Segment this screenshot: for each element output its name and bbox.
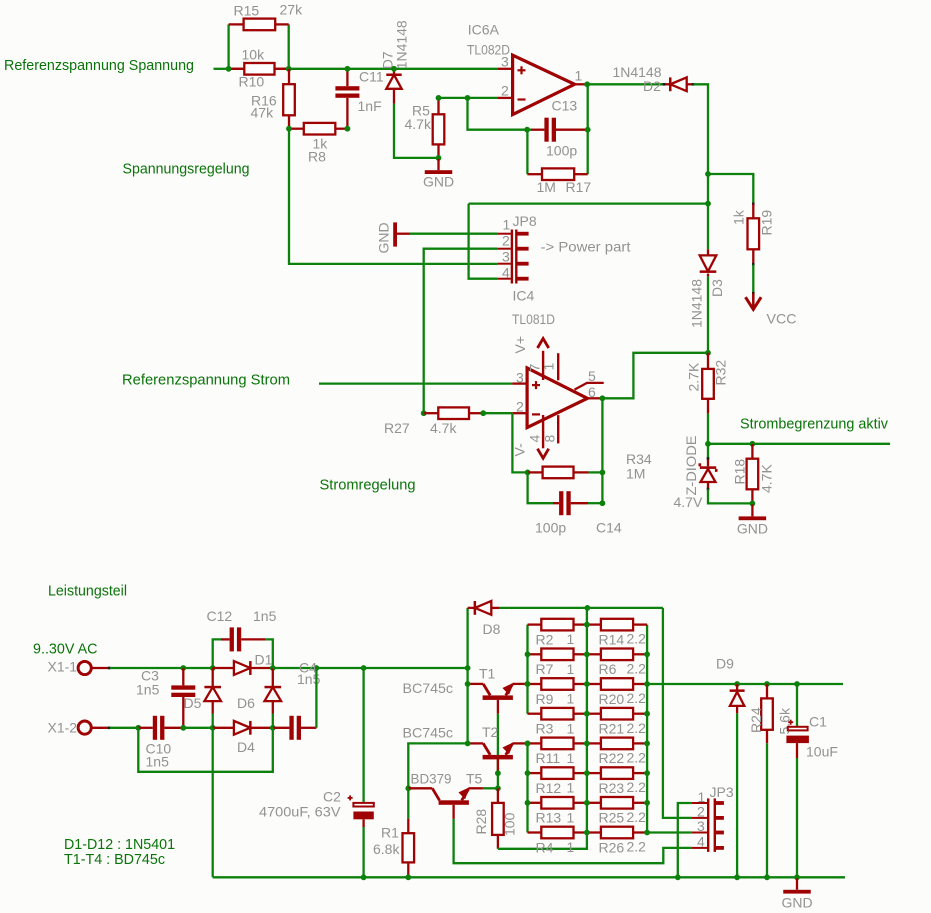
svg-text:Leistungsteil: Leistungsteil <box>48 583 127 600</box>
svg-text:R26: R26 <box>599 839 625 855</box>
junction C13 right <box>585 127 591 133</box>
svg-text:D8: D8 <box>483 621 501 637</box>
svg-text:C12: C12 <box>207 608 233 624</box>
svg-text:TL081D: TL081D <box>512 311 555 327</box>
wire +col to T5 collector <box>408 743 467 788</box>
junction T1 collector <box>465 681 471 687</box>
svg-text:8: 8 <box>542 435 558 443</box>
diode D5 <box>204 668 221 714</box>
svg-text:1: 1 <box>567 750 575 766</box>
wire X1-1 to bridge <box>110 667 213 669</box>
wire X1-2 bypass loop <box>138 728 272 772</box>
svg-text:D3: D3 <box>709 279 725 297</box>
svg-text:-> Power part: -> Power part <box>541 239 631 255</box>
labels R7 1 / R6 2.2 <box>536 660 647 677</box>
junction R19 branch <box>705 171 711 177</box>
junction R34 right <box>600 470 606 476</box>
svg-text:R3: R3 <box>536 721 554 737</box>
resistor R26 <box>587 827 647 839</box>
junction bank right row4 <box>644 711 650 717</box>
resistor R32 <box>702 353 714 414</box>
svg-text:R19: R19 <box>759 210 775 236</box>
junction R15/R10 left <box>226 66 232 72</box>
svg-text:2.2: 2.2 <box>627 660 647 676</box>
svg-text:10uF: 10uF <box>806 744 838 760</box>
resistor R12 <box>528 767 587 779</box>
junction bank left row7 <box>525 800 531 806</box>
wire T5 emitter to bases <box>483 787 498 789</box>
wire to zener <box>707 444 709 458</box>
junction C13 left <box>524 127 530 133</box>
wire D7 to GND node <box>394 104 439 158</box>
wire C12 right down <box>265 639 273 668</box>
svg-text:C13: C13 <box>552 98 578 114</box>
power VCC arrow <box>746 293 797 326</box>
svg-text:1n5: 1n5 <box>146 754 170 770</box>
junction bank middle row2 <box>584 651 590 657</box>
svg-text:R21: R21 <box>599 721 625 737</box>
svg-text:D2: D2 <box>643 78 661 94</box>
capacitor C4 <box>273 716 317 740</box>
wire +rail to C2 <box>362 668 364 803</box>
diode D1 <box>213 661 273 675</box>
wire output down feedback <box>601 398 603 503</box>
diode D2 1N4148 <box>664 77 694 91</box>
transistor T2 BC745c <box>468 724 528 773</box>
resistor R23 <box>587 767 647 779</box>
svg-text:D6: D6 <box>237 695 255 711</box>
wire ref-I to IC4 pin3 <box>319 382 512 384</box>
junction D9 / -rail <box>734 874 740 880</box>
diode D3 1N4148 <box>700 249 717 276</box>
junction R16/R8 <box>286 126 292 132</box>
junction C3 top <box>180 665 186 671</box>
junction bank right row5 <box>644 741 650 747</box>
svg-text:R15: R15 <box>234 3 260 19</box>
svg-text:27k: 27k <box>280 2 304 18</box>
junction bank left row6 <box>525 770 531 776</box>
capacitor C1 10uF <box>786 684 838 760</box>
wire to D3 anode <box>707 204 709 250</box>
svg-text:R25: R25 <box>599 810 625 826</box>
junction power-part line right <box>705 201 711 207</box>
wire R28 bottom to bank middle <box>498 833 587 849</box>
svg-text:Stromregelung: Stromregelung <box>320 477 416 494</box>
svg-text:R10: R10 <box>239 74 265 90</box>
wire down to C14 left <box>528 472 553 503</box>
wire IC4 output to R32 node <box>602 353 708 399</box>
svg-text:GND: GND <box>737 521 768 537</box>
junction C1 / GND / -rail <box>794 874 800 880</box>
terminal X1-1 <box>48 659 111 675</box>
svg-text:GND: GND <box>782 895 813 911</box>
svg-text:R17: R17 <box>566 179 592 195</box>
op-amp U IC4 TL081D <box>512 288 604 459</box>
svg-text:1N4148: 1N4148 <box>689 279 705 328</box>
svg-text:R27: R27 <box>384 420 410 436</box>
svg-text:C1: C1 <box>809 714 827 730</box>
junction bank middle row5 <box>584 741 590 747</box>
ground GND (R5) <box>423 159 454 190</box>
resistor R24 <box>761 684 773 743</box>
svg-text:1: 1 <box>567 631 575 647</box>
junction R32 top / D3 <box>705 350 711 356</box>
wire C14 right <box>588 502 602 504</box>
junction pin2 node <box>465 95 471 101</box>
junction IC4 output <box>600 395 606 401</box>
svg-text:4.7K: 4.7K <box>759 464 775 493</box>
wire R27 to IC4 pin2 <box>483 412 512 414</box>
wire D5 anode <box>212 714 214 728</box>
pin V- arrow (IC4 pin4) <box>542 415 544 448</box>
junction R18 bottom / GND <box>750 501 756 507</box>
junction R24 top <box>764 681 770 687</box>
svg-text:D4: D4 <box>237 739 255 755</box>
junction T1/T2 bases <box>495 770 501 776</box>
wire D9 to -rail <box>736 713 738 877</box>
svg-text:Z-DIODE: Z-DIODE <box>683 436 699 496</box>
wire to JP8 pin4 <box>469 204 498 279</box>
wire R10 right (lead) <box>275 68 289 70</box>
junction T2 emitter / bank row5 <box>525 741 531 747</box>
svg-text:1: 1 <box>567 809 575 825</box>
svg-text:X1-2: X1-2 <box>48 720 78 736</box>
junction R24 / -rail <box>764 874 770 880</box>
wire to R19 top <box>708 174 753 204</box>
svg-text:2.2: 2.2 <box>627 690 647 706</box>
svg-text:1N4148: 1N4148 <box>394 20 410 69</box>
svg-text:R14: R14 <box>599 631 625 647</box>
junction bank middle top <box>585 605 591 611</box>
wire bank row3 to output rail <box>647 683 843 685</box>
capacitor C2 4700uF <box>259 668 374 877</box>
wire C4 up to +rail <box>315 668 317 728</box>
labels R9 1 / R20 2.2 <box>536 690 647 707</box>
junction +rail / T column <box>465 665 471 671</box>
labels R11 1 / R22 2.2 <box>536 750 647 767</box>
junction bank left row2 <box>525 651 531 657</box>
diode D4 <box>213 721 273 735</box>
junction JP3 pin1 / -rail <box>675 874 681 880</box>
wire X1-2 to C10 <box>110 727 138 729</box>
resistor R1 <box>403 819 415 878</box>
wire D6 anode <box>272 714 274 728</box>
svg-text:R9: R9 <box>536 691 554 707</box>
junction R1 / -rail <box>405 874 411 880</box>
svg-text:2.2: 2.2 <box>627 839 647 855</box>
svg-text:C11: C11 <box>359 69 384 85</box>
svg-text:1k: 1k <box>731 209 747 225</box>
svg-text:3: 3 <box>516 370 524 386</box>
resistor R16 <box>283 69 295 129</box>
capacitor C13 <box>531 118 588 142</box>
svg-text:1: 1 <box>541 363 557 371</box>
op-amp U IC6A TL082D <box>467 22 587 115</box>
wire C13 left down to R17 <box>526 130 528 175</box>
junction bank right row2 <box>644 651 650 657</box>
svg-text:9..30V AC: 9..30V AC <box>33 641 98 658</box>
junction bank right row3 <box>644 681 650 687</box>
ground GND (bottom rail) <box>782 878 813 910</box>
resistor R6 <box>587 649 647 661</box>
wire R8 node to JP8 pin3 <box>289 129 498 264</box>
svg-text:100p: 100p <box>546 143 577 159</box>
junction R34 left <box>525 470 531 476</box>
junction bank left row3 <box>525 681 531 687</box>
resistor R27 <box>424 407 484 419</box>
terminal X1-2 <box>48 720 111 736</box>
wire down to power-part line <box>707 174 709 204</box>
wire T1 base down <box>497 714 499 773</box>
wire bank left column upper <box>526 625 528 714</box>
svg-text:100p: 100p <box>535 520 566 536</box>
svg-text:1: 1 <box>567 691 575 707</box>
transistor T5 BD379 <box>408 771 483 819</box>
junction T1 emitter / bank row3 <box>525 681 531 687</box>
svg-text:3: 3 <box>697 818 705 834</box>
wire D8 to bank top <box>500 607 663 609</box>
wire Strombegrenzung aktiv <box>708 443 890 445</box>
wire AC2 segment <box>183 727 212 729</box>
wire T5 node to R1 <box>407 788 409 818</box>
resistor R19 <box>748 204 760 265</box>
svg-text:1n5: 1n5 <box>253 608 277 624</box>
wire bases to T5 emitter <box>497 773 499 788</box>
wire power part line <box>469 202 708 204</box>
wire pin2 to R34 left <box>512 413 527 472</box>
junction R27 right <box>480 410 486 416</box>
svg-text:R22: R22 <box>599 750 625 766</box>
svg-text:R4: R4 <box>536 839 554 855</box>
resistor R17 <box>527 168 587 180</box>
pin stub IC4 pin8 <box>557 415 559 443</box>
svg-text:2: 2 <box>516 399 524 415</box>
junction Strombegrenzung node <box>705 441 711 447</box>
wire rail to C1 <box>796 684 798 727</box>
wire R15 right vertical <box>288 24 290 68</box>
junction R5 bottom / GND <box>436 155 442 161</box>
junction bank middle row7 <box>584 800 590 806</box>
svg-text:R23: R23 <box>599 780 625 796</box>
resistor R25 <box>587 797 647 809</box>
svg-text:BC745c: BC745c <box>403 725 454 741</box>
wire +rail up to D8 <box>466 608 468 668</box>
junction bank right row6 <box>644 770 650 776</box>
junction bank middle row8 <box>584 830 590 836</box>
junction D4 cathode / D6 bottom <box>270 725 276 731</box>
svg-text:1n5: 1n5 <box>136 682 160 698</box>
svg-text:R8: R8 <box>308 149 326 165</box>
svg-text:D5: D5 <box>184 695 202 711</box>
junction D9 anode <box>734 681 740 687</box>
diode D6 <box>265 668 282 714</box>
resistor R11 <box>528 738 587 750</box>
wire output to D2 <box>587 83 663 85</box>
resistor R15 <box>229 19 289 31</box>
diode D7 1N4148 <box>386 69 401 104</box>
pin IC4 pin5 stub <box>575 383 604 390</box>
wire R24 to -rail <box>766 743 768 877</box>
resistor R4 <box>528 827 587 839</box>
svg-text:1: 1 <box>503 216 511 232</box>
svg-text:2.7K: 2.7K <box>686 362 702 391</box>
resistor R21 <box>587 708 647 720</box>
svg-text:4700uF, 63V: 4700uF, 63V <box>259 804 341 820</box>
svg-text:R28: R28 <box>473 809 489 835</box>
wire bank middle column <box>586 608 588 833</box>
resistor R3 <box>528 708 587 720</box>
svg-text:1nF: 1nF <box>358 98 382 114</box>
svg-text:R13: R13 <box>536 810 562 826</box>
junction D1 cathode / D6 top <box>270 665 276 671</box>
wire R32 to limit node <box>707 414 709 444</box>
svg-text:4.7V: 4.7V <box>674 494 703 510</box>
wire -rail bottom <box>213 876 845 878</box>
svg-text:R7: R7 <box>536 661 554 677</box>
svg-text:R1: R1 <box>381 825 399 841</box>
svg-text:R24: R24 <box>748 707 764 733</box>
svg-text:JP8: JP8 <box>513 213 537 229</box>
resistor R28 <box>492 788 504 849</box>
svg-text:2.2: 2.2 <box>627 631 647 647</box>
junction C1 top <box>794 681 800 687</box>
wire JP3 pin1 down <box>678 803 692 877</box>
svg-text:47k: 47k <box>251 105 275 121</box>
ground GND (JP8 pin1, rotated) <box>376 222 410 253</box>
wire bank row8 to JP3 pin3 <box>647 831 692 833</box>
connector JP8 <box>498 213 537 284</box>
junction R15/R10 right <box>286 66 292 72</box>
wire ref-V main line left end <box>214 68 229 70</box>
svg-text:6: 6 <box>588 384 596 400</box>
svg-text:R12: R12 <box>536 780 562 796</box>
junction R8/C11 bottom <box>345 126 351 132</box>
svg-text:2.2: 2.2 <box>627 720 647 736</box>
junction IC6A output <box>584 81 590 87</box>
junction C2 / -rail <box>361 874 367 880</box>
svg-text:V-: V- <box>512 443 528 457</box>
svg-text:1: 1 <box>567 839 575 855</box>
wire JP8 pin2 down to R27 <box>424 249 498 414</box>
wire R34 right <box>589 471 603 473</box>
junction bank middle row3 <box>584 681 590 687</box>
resistor R9 <box>528 678 587 690</box>
zener diode Z-DIODE 4.7V <box>700 458 716 489</box>
svg-text:IC4: IC4 <box>513 288 535 304</box>
wire ref-V main line to IC6A pin3 <box>289 68 498 70</box>
diode D8 <box>468 601 500 615</box>
svg-text:T5: T5 <box>466 771 483 787</box>
svg-text:1: 1 <box>567 780 575 796</box>
junction D5/C12 left <box>210 665 216 671</box>
wire D2 to VCC branch node <box>694 84 709 174</box>
svg-text:1M: 1M <box>537 179 556 195</box>
junction R27 left <box>421 410 427 416</box>
svg-text:Spannungsregelung: Spannungsregelung <box>123 161 250 178</box>
junction C2 top column <box>361 665 367 671</box>
svg-text:3: 3 <box>501 54 509 70</box>
wire T5 base to JP3 pin4 <box>454 819 692 863</box>
junction bank middle row6 <box>584 770 590 776</box>
svg-text:D1: D1 <box>255 652 273 668</box>
junction R5 top <box>436 95 442 101</box>
svg-text:R2: R2 <box>536 631 554 647</box>
svg-text:V+: V+ <box>512 336 528 354</box>
wire D3 cathode down <box>707 276 709 353</box>
resistor R2 <box>528 619 587 631</box>
svg-text:R20: R20 <box>599 691 625 707</box>
svg-text:BD379: BD379 <box>411 771 452 787</box>
svg-text:4: 4 <box>697 834 705 850</box>
wire R5 top to IC6A pin2 <box>439 97 499 99</box>
svg-text:Referenzspannung Strom: Referenzspannung Strom <box>122 372 290 389</box>
junction D5 bottom / -rail <box>210 725 216 731</box>
wire zener to GND node <box>708 489 752 503</box>
svg-text:100: 100 <box>502 812 518 836</box>
svg-text:GND: GND <box>376 222 392 253</box>
svg-text:6.8k: 6.8k <box>373 841 400 857</box>
wire pin2 node down to C13 left <box>468 98 532 130</box>
junction X1-2 bypass <box>135 725 141 731</box>
pin stub IC4 pin1 <box>557 353 559 380</box>
svg-text:C2: C2 <box>323 789 341 805</box>
capacitor C3 <box>171 668 195 728</box>
wire bank top to JP3 pin2 <box>663 608 692 818</box>
wire +raw rail <box>316 667 467 669</box>
wire to C12 left <box>213 639 221 668</box>
svg-text:T1: T1 <box>479 666 496 682</box>
svg-text:GND: GND <box>423 174 454 190</box>
wire C2 bottom <box>362 827 364 877</box>
wire -rail vertical <box>212 728 214 878</box>
resistor R34 <box>528 467 589 479</box>
svg-text:JP3: JP3 <box>710 784 734 800</box>
labels R4 1 / R26 2.2 <box>536 839 647 856</box>
junction bank right row7 <box>644 800 650 806</box>
labels R12 1 / R23 2.2 <box>536 779 647 796</box>
wire bank left column lower <box>526 743 528 832</box>
svg-text:Strombegrenzung aktiv: Strombegrenzung aktiv <box>740 416 888 433</box>
svg-text:R11: R11 <box>536 750 561 766</box>
ground GND (R18) <box>737 504 768 536</box>
wire T1/T2 collector column <box>466 668 468 743</box>
wire bank right column <box>646 625 648 833</box>
connector JP3 <box>692 784 734 852</box>
svg-text:VCC: VCC <box>767 311 797 327</box>
labels R13 1 / R25 2.2 <box>536 809 647 826</box>
junction C4 column <box>314 665 320 671</box>
resistor R18 <box>747 444 759 504</box>
labels R2 1 / R14 2.2 <box>536 631 647 648</box>
svg-text:4: 4 <box>502 264 510 280</box>
wire R15 left vertical <box>227 24 229 68</box>
svg-text:10k: 10k <box>242 47 266 63</box>
wire +raw rail start <box>273 667 317 669</box>
svg-text:4: 4 <box>527 435 543 443</box>
capacitor C11 <box>335 69 359 129</box>
capacitor C14 <box>553 491 588 515</box>
svg-text:D9: D9 <box>716 656 734 672</box>
junction bank left row5 <box>525 741 531 747</box>
svg-text:X1-1: X1-1 <box>48 659 78 675</box>
svg-text:5: 5 <box>588 368 596 384</box>
svg-text:2: 2 <box>502 232 510 248</box>
svg-text:R18: R18 <box>732 459 748 485</box>
junction C11 top <box>345 66 351 72</box>
junction C3 bottom <box>180 725 186 731</box>
resistor R5 <box>433 98 445 158</box>
svg-text:1: 1 <box>567 661 575 677</box>
